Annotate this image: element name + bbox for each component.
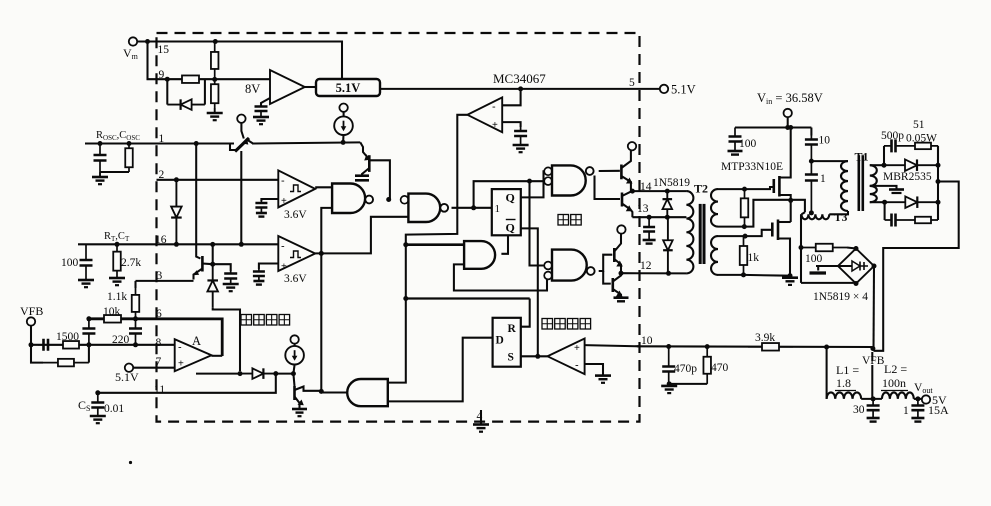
wire pin12 row bbox=[621, 272, 686, 274]
wire AND1 upper input bbox=[406, 243, 464, 246]
svg-text:8V: 8V bbox=[245, 82, 260, 96]
svg-text:VFB: VFB bbox=[862, 355, 885, 367]
wire comp II out row bbox=[315, 217, 407, 254]
svg-text:51: 51 bbox=[913, 119, 925, 131]
comparator I 3.6V bbox=[278, 170, 315, 207]
wire row to R bbox=[406, 297, 530, 299]
diode MBR top bbox=[884, 164, 938, 166]
transistor Q2 pin1 buffer bbox=[218, 144, 236, 151]
wire pin16 row bbox=[78, 243, 278, 245]
svg-text:MC34067: MC34067 bbox=[493, 71, 546, 86]
wire pin13 row bbox=[632, 216, 686, 218]
svg-text:30: 30 bbox=[853, 404, 865, 416]
wire gate M1 bbox=[745, 187, 774, 189]
flip-flop DRS box bbox=[493, 318, 521, 367]
svg-text:100: 100 bbox=[805, 253, 823, 265]
node VFB top bbox=[870, 346, 875, 351]
svg-text:15A: 15A bbox=[928, 403, 949, 417]
wire 5.1V output row pin5 bbox=[380, 88, 660, 90]
svg-text:9: 9 bbox=[159, 69, 165, 81]
svg-text:3.6V: 3.6V bbox=[284, 273, 307, 285]
svg-text:MTP33N10E: MTP33N10E bbox=[721, 161, 783, 173]
wire fault amp plus pin10 bbox=[585, 345, 640, 346]
wire N3 out to Q6 base bbox=[595, 176, 621, 200]
svg-text:15: 15 bbox=[158, 44, 170, 56]
inductor L2 bbox=[882, 392, 914, 399]
wire rectifier output bbox=[937, 146, 939, 220]
node Q4 collector bbox=[319, 389, 324, 394]
wire gate M2 bbox=[745, 230, 772, 236]
resistor VFB lower bbox=[43, 362, 89, 364]
svg-text:+: + bbox=[178, 359, 184, 370]
wire Q to N3 upper bbox=[521, 171, 544, 197]
nand gate N1 bbox=[332, 184, 365, 214]
wire 5.1V to fault comp minus bbox=[502, 89, 520, 105]
wire N4 out to Q7 base bbox=[599, 255, 613, 271]
wire S input bbox=[521, 355, 548, 357]
svg-text:1N5819: 1N5819 bbox=[653, 177, 690, 189]
regulator 5.1V box bbox=[316, 79, 380, 96]
wire Q1 collector up to pin16 row bbox=[212, 244, 214, 264]
wire fault amp minus gnd bbox=[585, 364, 603, 376]
capacitor pin13 bbox=[648, 217, 650, 240]
terminal Vin bbox=[129, 37, 137, 45]
wire center tap bbox=[870, 186, 897, 189]
nand gate N3 bbox=[544, 167, 552, 175]
wire 470 to gnd bbox=[669, 383, 707, 385]
transistor Q8 bbox=[611, 278, 614, 292]
wire fault comp out down bbox=[388, 115, 467, 383]
svg-text:1: 1 bbox=[820, 173, 826, 185]
current source I1 bbox=[339, 104, 347, 112]
op-amp fault amp bbox=[548, 339, 585, 375]
wire N4 upper feed bbox=[530, 181, 545, 265]
svg-text:5.1V: 5.1V bbox=[671, 83, 696, 97]
snubber bottom bbox=[884, 202, 886, 220]
transistor Q3 pnp bbox=[360, 142, 367, 156]
svg-text:100: 100 bbox=[739, 138, 757, 150]
nand gate N2 bbox=[401, 196, 409, 204]
svg-text:-: - bbox=[281, 241, 285, 253]
svg-text:+: + bbox=[281, 262, 287, 273]
svg-text:3.6V: 3.6V bbox=[284, 209, 307, 221]
svg-text:D: D bbox=[496, 335, 504, 347]
resistor on pin9 row bbox=[170, 78, 211, 80]
wire diode row to I2 bbox=[276, 373, 294, 375]
resistor 470 bbox=[706, 347, 708, 384]
diode clamp loop bbox=[166, 79, 168, 104]
svg-text:0.01: 0.01 bbox=[104, 403, 124, 415]
terminal Q7 collector bbox=[617, 225, 625, 233]
wire pin6 row feedback bbox=[89, 319, 222, 356]
wire pin8 row bbox=[31, 344, 157, 346]
nand gate N4 bbox=[544, 262, 552, 270]
wire M2 source row bbox=[744, 274, 791, 277]
wire pin11 row bbox=[98, 374, 276, 393]
op-amp 8V buffer bbox=[270, 70, 305, 104]
transformer T1 sec lower bbox=[870, 186, 877, 202]
wire VFB sense bbox=[871, 352, 873, 361]
wire 8V to 5.1V reg bbox=[305, 86, 316, 88]
comparator fault top bbox=[467, 97, 502, 132]
svg-text:+: + bbox=[492, 120, 498, 131]
capacitor series VFB bbox=[38, 344, 56, 346]
svg-text:S: S bbox=[508, 352, 514, 364]
svg-text:10: 10 bbox=[819, 135, 831, 147]
capacitor Cosc bbox=[99, 144, 101, 173]
svg-text:+: + bbox=[574, 343, 580, 354]
wire T1 top bbox=[811, 160, 848, 162]
zener below Q1 bbox=[212, 264, 214, 308]
transformer T2 sec lower bbox=[711, 236, 718, 275]
svg-text:100n: 100n bbox=[882, 376, 906, 390]
diode MBR bottom bbox=[885, 201, 938, 203]
transformer T1 primary bbox=[841, 161, 848, 211]
resistor gate upper bbox=[744, 189, 746, 227]
svg-text:Q: Q bbox=[506, 191, 515, 205]
svg-text:12: 12 bbox=[640, 260, 652, 272]
wire N3 out bbox=[599, 170, 620, 172]
svg-text:Q: Q bbox=[506, 221, 515, 235]
inductor L1 bbox=[827, 392, 862, 399]
wire Q8 base feed bbox=[603, 271, 611, 284]
transformer T1 core bbox=[857, 155, 860, 211]
svg-text:1k: 1k bbox=[748, 252, 760, 264]
wire pin1 row bbox=[85, 142, 157, 144]
resistor 3.9k bbox=[748, 346, 793, 348]
resistor series VFB bbox=[56, 344, 86, 346]
resistor Rosc bbox=[128, 144, 130, 173]
svg-text:14: 14 bbox=[640, 181, 652, 193]
svg-text:3.9k: 3.9k bbox=[755, 332, 775, 344]
diode D2 1N5819 bbox=[667, 217, 669, 273]
svg-text:-: - bbox=[575, 360, 579, 372]
and gate A1 bbox=[464, 241, 495, 269]
wire to L1 bbox=[826, 347, 828, 399]
transistor Q6 bbox=[621, 193, 624, 207]
current source I2 bbox=[290, 335, 298, 343]
wire NAND1 lower input bbox=[321, 208, 332, 392]
pseudo-label 故障放大 bbox=[542, 319, 553, 330]
svg-text:L1 =: L1 = bbox=[836, 363, 859, 377]
ground Q8 bbox=[620, 297, 622, 299]
wire VFB lower branch bbox=[31, 345, 43, 363]
IC boundary MC34067 dashed box bbox=[157, 33, 640, 422]
terminal Vin power bbox=[784, 109, 792, 117]
svg-text:L2 =: L2 = bbox=[884, 362, 907, 376]
mosfet M1 bbox=[772, 179, 775, 193]
wire pin8 inside bbox=[157, 344, 175, 346]
resistor divider lower bbox=[214, 79, 216, 108]
wire R input bbox=[521, 299, 530, 327]
svg-text:8: 8 bbox=[156, 337, 162, 349]
terminal Q2 collector bbox=[237, 115, 245, 123]
diode pin2 to pin16 bbox=[175, 180, 177, 245]
wire N4 lower loop bbox=[454, 264, 547, 290]
transistor Q4 bbox=[293, 374, 294, 386]
svg-text:1N5819 × 4: 1N5819 × 4 bbox=[813, 291, 868, 303]
svg-text:1.1k: 1.1k bbox=[107, 291, 127, 303]
pseudo-label 误差放大 bbox=[241, 315, 252, 326]
wire comp I out to NAND1 bbox=[315, 186, 332, 188]
wire pin10 row bbox=[637, 345, 872, 348]
capacitor comp I plus bbox=[261, 199, 278, 201]
wire pin1 inside bbox=[157, 142, 235, 144]
bridge 1N5819x4 bbox=[838, 249, 874, 284]
capacitor at 8V buffer bbox=[261, 98, 270, 106]
svg-text:11: 11 bbox=[154, 384, 165, 396]
wire pin2 row bbox=[157, 179, 279, 181]
node resonant top bbox=[809, 159, 814, 164]
diode D1 1N5819 bbox=[666, 191, 668, 217]
transformer T3 bbox=[802, 214, 830, 219]
svg-text:470: 470 bbox=[711, 362, 729, 374]
wire T3 down to 100 bbox=[800, 214, 802, 283]
svg-text:-: - bbox=[492, 101, 496, 113]
svg-text:13: 13 bbox=[637, 203, 649, 215]
wire pin1 vertical to Q1 base bbox=[196, 144, 200, 259]
mosfet M2 bbox=[771, 223, 774, 237]
transformer T2 core bbox=[699, 204, 702, 264]
capacitor fault comp plus bbox=[502, 122, 520, 127]
op-amp error A bbox=[175, 339, 212, 371]
ground bridge left bbox=[817, 266, 819, 271]
node L1 L2 bbox=[871, 396, 876, 401]
transistor Q5 bbox=[620, 165, 623, 180]
wire bridge out down bbox=[872, 266, 875, 351]
ground M2 source bbox=[789, 276, 791, 278]
wire A2 lower input bbox=[388, 338, 493, 402]
svg-text:T2: T2 bbox=[694, 182, 708, 196]
terminal Vout bbox=[922, 395, 930, 403]
svg-text:1: 1 bbox=[495, 203, 501, 215]
svg-text:-: - bbox=[281, 175, 285, 187]
wire osc rail to current source bbox=[252, 142, 360, 143]
speck bbox=[129, 461, 132, 464]
capacitor 470p bbox=[668, 347, 670, 384]
wire bridge top bbox=[847, 248, 856, 249]
ground divider bbox=[214, 108, 216, 113]
transistor Q1 bbox=[201, 256, 204, 272]
svg-text:+: + bbox=[281, 196, 287, 207]
diode EA output bbox=[240, 373, 276, 375]
comparator II 3.6V bbox=[278, 236, 315, 271]
svg-text:VFB: VFB bbox=[20, 304, 43, 318]
wire osc ground rail bbox=[100, 171, 129, 173]
wire T3 to T1 bbox=[829, 211, 848, 214]
wire N2 out to latch bbox=[452, 207, 492, 209]
pseudo-label 输出 bbox=[558, 215, 569, 226]
transformer T2 primary bbox=[686, 191, 693, 273]
wire Vin rail top bbox=[137, 42, 342, 80]
snubber top bbox=[883, 146, 885, 165]
transistor Q7 bbox=[613, 248, 616, 262]
ground osc bbox=[99, 172, 101, 177]
and gate A2 mirrored bbox=[347, 379, 388, 406]
svg-text:2.7k: 2.7k bbox=[121, 257, 141, 269]
transformer T2 sec upper bbox=[711, 189, 718, 227]
resistor divider upper bbox=[214, 42, 216, 80]
wire N1 out node bbox=[386, 197, 391, 202]
svg-text:-: - bbox=[178, 342, 182, 354]
svg-text:R: R bbox=[508, 323, 517, 335]
wire A1 out to latch bbox=[501, 235, 508, 254]
wire Q1 emitter to pin3 row bbox=[157, 280, 194, 282]
capacitor comp II plus bbox=[259, 264, 278, 270]
wire Vin rail bbox=[735, 126, 811, 128]
svg-text:5.1V: 5.1V bbox=[336, 81, 361, 95]
wire pin14 row bbox=[631, 190, 687, 192]
capacitor at Q1 collector bbox=[213, 264, 231, 271]
node Vout bbox=[915, 396, 920, 401]
svg-text:MBR2535: MBR2535 bbox=[883, 171, 932, 183]
wire source loop M1 bbox=[744, 200, 790, 227]
wire Vin to pin 9 bbox=[148, 42, 271, 80]
resistor gate lower 1k bbox=[743, 236, 745, 275]
wire Qbar down to S bbox=[521, 228, 538, 356]
svg-text:A: A bbox=[192, 334, 201, 348]
svg-text:7: 7 bbox=[156, 356, 162, 368]
wire EA output diode row bbox=[212, 355, 223, 357]
wire A2 output bbox=[321, 391, 347, 393]
svg-text:1.8: 1.8 bbox=[836, 376, 851, 390]
ground Q4 bbox=[299, 408, 301, 410]
svg-text:470p: 470p bbox=[674, 363, 697, 375]
svg-text:1: 1 bbox=[903, 405, 909, 417]
svg-text:100: 100 bbox=[61, 257, 79, 269]
latch T flip-flop box bbox=[492, 189, 521, 235]
terminal Q5 collector bbox=[628, 142, 636, 150]
terminal 5.1V out bbox=[660, 85, 668, 93]
capacitor at Q3 bbox=[355, 174, 369, 177]
svg-text:T1: T1 bbox=[855, 150, 869, 164]
svg-text:5: 5 bbox=[629, 77, 635, 89]
transformer T1 sec upper bbox=[870, 165, 877, 186]
wire pin3 external bbox=[136, 280, 157, 282]
resistor 100 sense bbox=[802, 247, 848, 249]
svg-text:10: 10 bbox=[641, 335, 653, 347]
svg-text:3: 3 bbox=[157, 270, 163, 282]
wire N2 out up over bbox=[474, 181, 544, 208]
wire switch node bbox=[791, 200, 805, 213]
